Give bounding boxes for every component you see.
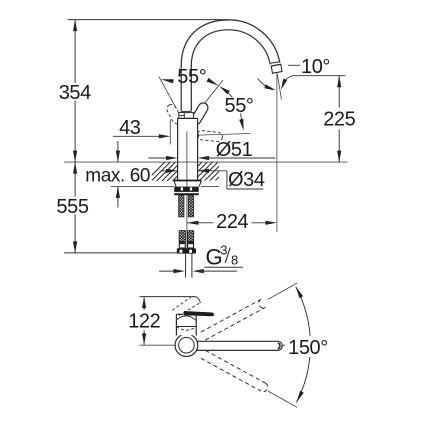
svg-text:Ø51: Ø51 [216,139,253,161]
spout inner arc [191,30,270,66]
arc arrow bottom [296,391,303,403]
dim 354 line [74,20,76,83]
topview inner circle [179,337,195,353]
svg-text:3: 3 [220,242,227,257]
svg-text:122: 122 [128,310,160,332]
spout outer arc [181,20,280,66]
topview base circle [175,334,198,357]
hose-end reference line [64,252,177,254]
svg-text:55°: 55° [224,95,253,117]
spout aerator [271,64,282,73]
topview lever dashed raised [172,297,199,315]
topview dome arc [176,316,196,321]
55-deg arrow left [161,79,174,83]
spout swung upper dashed [201,299,266,340]
svg-text:55°: 55° [177,66,206,88]
lever-down axis line [187,134,250,136]
swivel ext line lower [268,391,297,407]
swivel ext line upper [268,283,297,299]
svg-text:Ø34: Ø34 [228,169,265,191]
topview spout axis line [139,344,285,346]
svg-text:150°: 150° [288,337,328,359]
topview dashed arc [176,327,196,331]
10-deg arc left [258,79,273,90]
lever angle line right [193,80,223,118]
10-deg leader right [283,76,345,84]
counter bottom line [111,185,174,187]
lever dashed raised position [165,103,183,126]
svg-text:224: 224 [216,211,248,233]
svg-text:10°: 10° [301,56,330,78]
55-deg-2 leader down [241,114,243,126]
lever angle line left [159,77,177,109]
svg-text:354: 354 [59,82,91,104]
dim 354 top extension line [68,19,229,21]
dim max60 [117,141,119,162]
body centerline [186,131,188,252]
arc 150deg [296,287,310,403]
cartridge cap [179,113,194,119]
dim 43 ref line [169,119,171,144]
mounting nut [174,187,199,196]
svg-text:8: 8 [231,252,238,267]
topview lever handle [184,311,214,316]
dia34 leader box [226,171,228,189]
dim G38 arrows [159,270,180,272]
topview spout pill [197,341,283,350]
hose nipple left [179,231,185,242]
55-deg-2 arrow upleft [219,86,230,94]
counter top line [64,161,347,163]
dim dia51 [148,157,173,159]
mounting flange [174,180,202,182]
threaded studs [179,195,184,217]
dim 225 [338,76,340,108]
arc arrow top [296,287,304,299]
dim 122 [143,297,145,310]
riser tube [180,65,182,111]
svg-text:225: 225 [323,109,355,131]
svg-text:555: 555 [56,196,88,218]
lever dashed lowered position [197,130,223,142]
outlet axis tilted [277,74,281,100]
hose collar [177,248,196,253]
spout swung lower dashed [201,350,268,391]
hose tube [185,254,187,278]
dim dia34 arrows [161,170,174,172]
hose nipple right [187,231,193,242]
spout outlet band [271,62,281,64]
55-deg arrow right [207,78,219,86]
outlet axis vertical [276,74,278,233]
dim 224 [187,222,214,224]
dim 555 line [74,162,76,196]
topview body column [176,314,196,335]
lever solid [190,101,210,126]
dim 122 top line [139,296,191,298]
svg-text:max. 60: max. 60 [85,166,150,187]
faucet body [178,118,198,180]
topview spout pill inner end [278,343,280,349]
